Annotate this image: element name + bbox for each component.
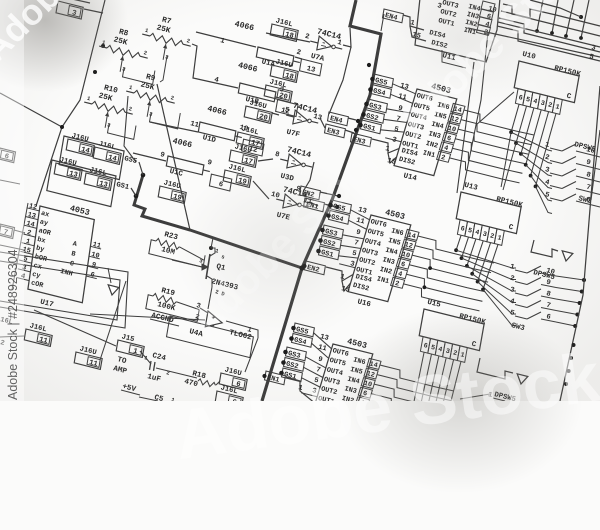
wire GS5 to pin (393, 84, 416, 94)
wire SW3 to rail (556, 288, 582, 292)
wire U7A out to bus top (343, 28, 351, 47)
wire U10 junction to switch (521, 154, 552, 176)
wire U17 pin 10 (89, 256, 100, 259)
wire EN1 to U18 DIS (286, 377, 315, 403)
wire U17 pin 12 (27, 208, 40, 211)
wire U3D out down (304, 162, 314, 190)
buffer chip U14 4503 (394, 89, 457, 176)
wire R18 to J16U6 (216, 381, 220, 385)
watermark big bottom (170, 336, 600, 475)
wire GS3 to pin (343, 235, 364, 239)
connector pin 3 (56, 1, 83, 19)
connector J16U pin 6 (219, 373, 247, 390)
opamp U4A TLO62 (167, 316, 254, 358)
wire U11 down to U13 b (457, 62, 474, 193)
connector J16L pin 11 (24, 329, 52, 346)
wire top edge right (530, 0, 581, 17)
net label EN2 (300, 186, 321, 200)
connector J16L pin 6 (215, 391, 243, 408)
wire EN3 to bus (345, 130, 354, 133)
arrow terminal (108, 285, 119, 295)
wire EN4 to bus jog (381, 14, 384, 31)
wire long right b (468, 28, 600, 57)
net label GS3 (323, 225, 344, 239)
connector J16L pin 13 (84, 173, 112, 190)
wire R9 rail (124, 96, 136, 162)
wire opamp to J16U6 (245, 338, 258, 372)
wire opamp in 3 (200, 308, 208, 313)
wire U7E input from J16L19 (253, 181, 269, 199)
wire SW3 to rail (556, 276, 584, 280)
wire enclosure outer (0, 252, 128, 328)
wire U10 drop long (501, 132, 511, 187)
wire U15 pin1 to DPSW5 arrow (477, 358, 513, 379)
wire U17 pin 15 (20, 251, 33, 254)
net label EN3 (325, 124, 346, 138)
wire U1C input (133, 153, 166, 161)
wire SW3 to rail (556, 311, 577, 315)
net label EN2 (305, 261, 326, 275)
wire right rail (560, 86, 600, 401)
wire U17 pin 2 (23, 234, 36, 237)
wire U13 junction to SW3 (478, 282, 516, 314)
wire U11 bottom stub (442, 50, 466, 68)
wire left rail (36, 0, 105, 206)
wire EN4 to bus (348, 118, 356, 120)
wire GS5 to bus (139, 162, 143, 175)
watermark left bar (0, 0, 24, 401)
wires U15 pins down to edge (414, 352, 424, 401)
connector J16L pin 20 (264, 85, 292, 102)
wire U17 to left edge (14, 230, 25, 233)
wire U17 pin 5 (19, 260, 32, 263)
wire EN4 to U11 DIS (403, 15, 424, 30)
wire GS2 to pin (384, 119, 407, 122)
connector J15 pin 1 (116, 340, 144, 357)
watermark diagonal 3 (180, 130, 395, 345)
wire GS4 to pin (312, 343, 329, 358)
wire U10 junction to switch (531, 176, 552, 201)
net label GS5 (331, 200, 352, 214)
wire left edge mid (0, 180, 20, 184)
connector pin 6 (0, 148, 16, 163)
connector J16U pin 20 (244, 106, 272, 123)
wire U17 left rail (12, 203, 28, 290)
connector J16U pin 19 (158, 186, 186, 203)
wire GS4 to pin (391, 94, 413, 103)
wire C24 left (140, 351, 151, 364)
wire EN2 to bus (320, 192, 338, 196)
wire GS3 to pin (387, 109, 410, 113)
wire U17 pin 11 (90, 246, 101, 249)
connector J16U pin 18 (270, 65, 298, 82)
wire U7F out to EN3 flag (320, 118, 325, 128)
wire U17 pin 6 (86, 276, 97, 279)
wire enclosure inner (0, 261, 120, 320)
wire opamp out (226, 321, 258, 338)
net label GS4 (329, 211, 350, 225)
net label GS1 (282, 368, 303, 382)
net label GS4 (371, 85, 392, 99)
connector J16U pin 11 (74, 352, 102, 369)
wire group box 13 (47, 160, 116, 207)
wire U7E out (310, 202, 318, 206)
net label EN1 (304, 198, 325, 212)
net label GS4 (292, 334, 313, 348)
wire C24 to R18 (156, 368, 197, 378)
wires U18 IN right (380, 365, 454, 391)
net label EN3 (351, 133, 372, 147)
wire GS1 to pin (302, 378, 321, 387)
connector J16L pin 19 (223, 170, 251, 187)
wire GS5 to pin (351, 210, 370, 220)
net label EN4 (383, 9, 404, 23)
wire SW3 to rail (556, 299, 580, 303)
wire U11 down to U13 a (463, 32, 488, 190)
connector top-left cut (63, 0, 90, 3)
connector pin 7 (0, 224, 15, 239)
net label GS2 (321, 236, 342, 250)
arrow terminal (562, 251, 573, 261)
net label GS2 (364, 110, 385, 124)
wire Q1 drain up (211, 238, 213, 248)
wire U7A in (266, 33, 310, 42)
wire U13 junction to SW3 (462, 258, 517, 279)
wire OUT1 stub U14 (385, 138, 401, 142)
watermark diagonal 2 (388, 0, 600, 146)
wire R10 loop (108, 124, 137, 139)
wires U14 IN right (464, 110, 534, 135)
wire R8 loop (123, 68, 155, 84)
multiplexer U17 4053 (28, 206, 94, 303)
wire EN1 to bus (324, 204, 336, 207)
wires U11 IN stair right (503, 4, 600, 36)
wire U17 pin 3 (18, 269, 31, 272)
wire U10 junction to switch (511, 132, 552, 151)
wire R7 to U1B input (192, 44, 238, 88)
wire U17 pin 9 (88, 266, 99, 269)
wire U17 pin 13 (25, 217, 38, 220)
connector J16L pin 18 (270, 24, 298, 41)
wire thick main bus (262, 0, 381, 401)
net label GS5 (373, 74, 394, 88)
wire SW3 to rail (556, 322, 575, 326)
wire U13 junction to SW3 (483, 289, 516, 325)
wire U10 junction to switch (516, 143, 552, 163)
net label GS1 (361, 120, 382, 134)
connector J16L pin 17 (236, 132, 264, 149)
wire bottom left edge (0, 336, 24, 337)
wire GS2 to pin (341, 245, 361, 248)
wire U10 junction to switch (536, 186, 553, 213)
wire J15 left (34, 310, 116, 346)
transistor Q1 2N4393 (172, 260, 202, 267)
wire from J16U11 up (100, 281, 126, 360)
wire U13 junction to SW3 (472, 274, 516, 303)
connector J16U pin 14 (66, 139, 94, 156)
wire INH down (108, 268, 111, 283)
wire U13 junction to SW3 (467, 266, 516, 291)
wire EN3 to U14 DIS (372, 139, 399, 153)
connector J16U pin 17 (229, 150, 257, 167)
wire U10 corner diagonal (476, 92, 514, 125)
wire diagonal thin (157, 84, 190, 230)
buffer chip U11 4503 partial (415, 0, 500, 62)
wire thick diagonal branch (134, 175, 302, 268)
wire U10 drop long (503, 143, 516, 190)
wire top verticals (537, 0, 543, 31)
wires U13 pins down (456, 235, 461, 250)
wire long right a (498, 22, 600, 47)
net label GS5 (294, 323, 315, 337)
net label EN4 (328, 112, 349, 126)
watermark diagonal 1 (0, 0, 159, 70)
wires U16 IN right (418, 236, 494, 263)
wire GS1 to pin (339, 256, 359, 258)
connector J16U pin 13 (54, 163, 82, 180)
net label EN1 (265, 371, 286, 385)
wire R7 wiper loop (160, 56, 167, 82)
wire connector to rail (84, 9, 103, 13)
wire GS1 to pin (381, 130, 405, 132)
wire U10 junction to switch (526, 165, 552, 189)
wire U1A input (196, 32, 256, 47)
connector J16L pin 14 (93, 147, 121, 164)
wire U17 pin 1 (22, 243, 35, 246)
wires U10 pins down (511, 104, 519, 132)
wire GS4 to pin (349, 220, 367, 229)
wire Q1 source down to opamp (208, 287, 212, 309)
wire GS3 to pin (306, 357, 326, 368)
buffer chip U18 4503 (310, 344, 373, 431)
net label GS1 (319, 246, 340, 260)
wire group box 14 (59, 136, 124, 180)
wire U17 pin 4 (17, 278, 30, 281)
net label GS3 (367, 99, 388, 113)
wire from left edge to rail (0, 93, 62, 127)
arrow terminal (517, 374, 528, 384)
wire GS2 to pin (304, 367, 323, 377)
wire GS5 to pin (314, 333, 332, 349)
wire U13 junction to SW3 (456, 250, 516, 268)
wire U13 to DPSW5 arrow (531, 240, 558, 257)
wire U1A out to J16L18 (295, 57, 302, 59)
wire U1D input (150, 122, 198, 132)
wire right rail 2 (591, 130, 600, 200)
wire R9 loop (150, 113, 181, 129)
wire U17 pin 14 (24, 225, 37, 228)
buffer chip U16 4503 (348, 215, 411, 302)
wire EN2 to U16 DIS (326, 267, 353, 281)
wire U7F input from J16U20 (272, 113, 279, 115)
wire opamp in 2 (90, 314, 205, 320)
wire U7A column down (329, 47, 351, 114)
net label GS2 (284, 358, 305, 372)
wire U3D input from J16U17 (258, 159, 273, 161)
net label GS3 (286, 347, 307, 361)
wire GS1 to bus (131, 188, 136, 196)
